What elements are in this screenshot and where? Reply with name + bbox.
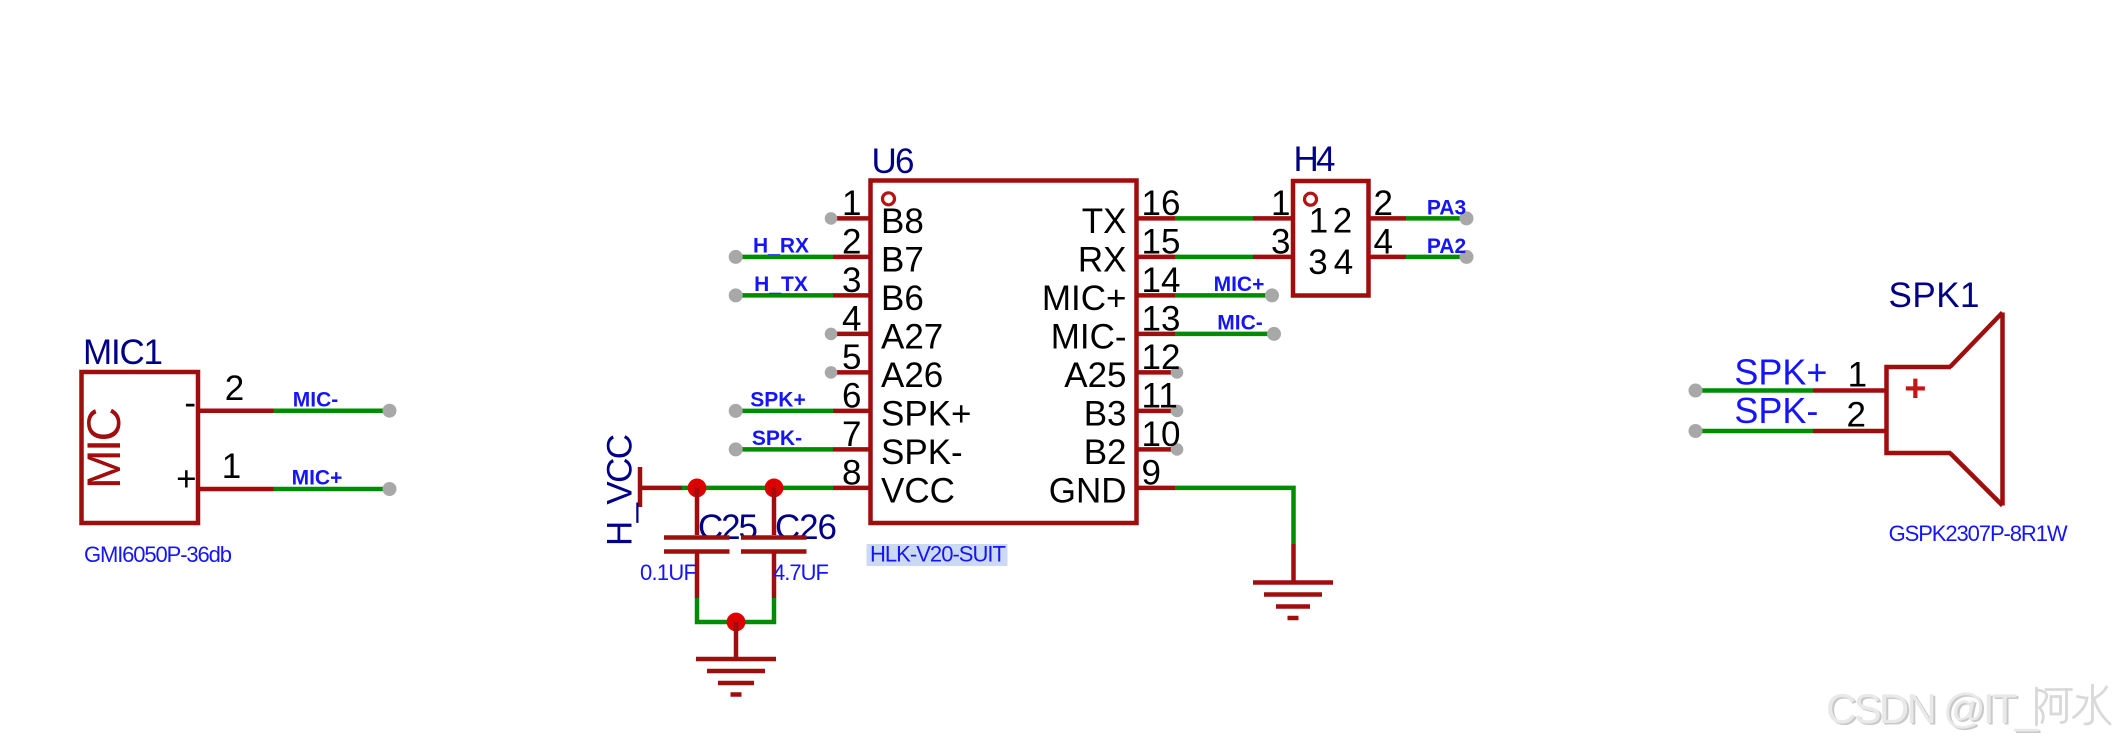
svg-text:3: 3 [1271,222,1290,261]
U6 pin 15 number [1142,222,1181,261]
U6 pin 8 name VCC [881,472,955,511]
ground stub right [1291,544,1296,581]
svg-text:GMI6050P-36db: GMI6050P-36db [84,542,232,567]
wire H_TX net [736,293,833,298]
net label MIC+ (right) [1214,273,1265,296]
svg-text:H4: H4 [1294,140,1336,179]
svg-text:A27: A27 [881,318,943,357]
svg-text:12: 12 [1142,338,1181,377]
SPK1 pin 2 number [1846,395,1865,434]
svg-text:B8: B8 [881,202,924,241]
H4 inner pin number 4 [1334,243,1353,282]
svg-text:C26: C26 [775,508,837,547]
U6 pin 11 name B3 [1084,395,1127,434]
wire MIC+ net [274,487,390,492]
svg-text:MIC+: MIC+ [292,467,343,490]
svg-text:GSPK2307P-8R1W: GSPK2307P-8R1W [1889,521,2068,546]
svg-text:SPK+: SPK+ [881,395,971,434]
svg-text:11: 11 [1142,376,1178,415]
U6 pin 3 stub [833,293,869,298]
power port H_VCC text [601,434,640,546]
svg-text:SPK-: SPK- [1734,390,1818,431]
svg-text:PA3: PA3 [1427,196,1466,219]
wire PA3 net [1406,216,1466,221]
U6 pin 1 name B8 [881,202,924,241]
node MIC+ open end (right) [1265,288,1279,302]
wire GND net from U6 pin 9 [1175,488,1294,544]
microphone MIC1 body [78,372,198,523]
MIC1 pin 1 number [222,447,241,486]
U6 pin 5 stub [832,370,869,375]
U6 pin 2 stub [833,255,869,260]
capacitor C25 value 0.1UF [640,560,697,585]
net label PA2 [1427,235,1466,258]
svg-text:6: 6 [842,376,861,415]
U6 pin 8 number [842,453,861,492]
svg-text:5: 5 [842,338,861,377]
U6 pin 10 stub [1138,447,1175,452]
node SPK+ open end [729,404,743,418]
svg-text:2: 2 [1846,395,1865,434]
U6 pin 2 number [842,222,861,261]
svg-text:U6: U6 [872,142,915,181]
svg-text:1: 1 [222,447,241,486]
H4 pin 4 number [1374,222,1393,261]
svg-text:0.1UF: 0.1UF [640,560,697,585]
wire SPK- net (left) [736,447,833,452]
junction at C26 top [765,479,784,498]
node MIC- open end (right) [1267,327,1281,341]
U6 pin 15 stub [1138,255,1175,260]
U6 pin 12 stub [1138,370,1175,375]
U6 pin 10 name B2 [1084,433,1127,472]
svg-text:H_VCC: H_VCC [601,434,640,546]
svg-text:9: 9 [1142,453,1161,492]
wire SPK- net (speaker) [1697,429,1813,434]
U6 pin 6 name SPK+ [881,395,971,434]
node SPK- open end [729,442,743,456]
svg-text:2: 2 [225,369,244,408]
U6 pin 11 stub [1138,409,1175,414]
U6 pin 4 number [842,299,861,338]
svg-text:B7: B7 [881,241,924,280]
svg-text:2: 2 [1333,201,1352,240]
wire MIC- net [274,408,390,413]
U6 pin 7 number [842,415,861,454]
wire SPK+ net (left) [736,409,833,414]
svg-text:4.7UF: 4.7UF [773,560,829,585]
svg-text:1: 1 [1309,201,1328,240]
U6 pin 10 open end [1171,443,1184,456]
svg-text:10: 10 [1142,415,1181,454]
junction at C25 top [688,479,707,498]
H4 inner pin number 3 [1308,243,1327,282]
SPK1 pin 2 stub [1813,429,1887,434]
svg-text:+: + [176,459,196,498]
svg-text:2: 2 [842,222,861,261]
svg-text:3: 3 [1308,243,1327,282]
wire TX to H4 pin 1 [1175,216,1253,221]
node SPK- open end (speaker) [1689,424,1703,438]
wire PA2 net [1406,255,1466,260]
svg-text:HLK-V20-SUIT: HLK-V20-SUIT [870,542,1006,567]
svg-text:3: 3 [842,261,861,300]
wire capacitor bottoms to ground [697,598,774,622]
U6 pin 2 name B7 [881,241,924,280]
U6 pin 1 open end [825,212,838,225]
node PA2 open end [1460,250,1474,264]
svg-text:MIC-: MIC- [1217,312,1263,335]
svg-text:GND: GND [1049,472,1127,511]
IC U6 body [871,181,1137,524]
net label SPK+ [750,389,805,412]
U6 pin 9 stub [1138,486,1175,491]
U6 pin 5 number [842,338,861,377]
U6 pin 9 name GND [1049,472,1127,511]
U6 pin 16 number [1142,184,1181,223]
U6 pin 6 stub [833,409,869,414]
U6 pin 3 name B6 [881,279,924,318]
H4 pin 2 stub [1371,216,1407,221]
node H_RX open end [729,250,743,264]
MIC1 pin 1 stub [197,487,274,492]
U6 pin 12 name A25 [1064,356,1126,395]
U6 pin 4 open end [825,328,838,341]
U6 pin 11 open end [1171,405,1184,418]
net label MIC+ [292,467,343,490]
MIC1 pin 2 number [225,369,244,408]
svg-text:13: 13 [1142,299,1181,338]
ground symbol under capacitors [696,659,776,695]
speaker SPK1 polarity plus [1904,368,1926,410]
SPK1 pin 1 stub [1813,388,1887,393]
svg-text:SPK+: SPK+ [750,389,805,412]
MIC1 pin 1 name "+" [176,459,196,498]
connector H4 body [1293,181,1369,296]
svg-text:14: 14 [1142,261,1181,300]
speaker SPK1 designator [1889,276,1980,315]
svg-text:-: - [184,384,196,423]
U6 pin 16 name TX [1082,202,1127,241]
H4 pin 2 number [1374,184,1393,223]
U6 pin 14 stub [1138,293,1175,298]
IC U6 designator [872,142,915,181]
U6 pin 11 number [1142,376,1178,415]
svg-text:A26: A26 [881,356,943,395]
U6 value label HLK-V20-SUIT [867,542,1008,567]
svg-text:7: 7 [842,415,861,454]
svg-text:MIC+: MIC+ [1214,273,1265,296]
connector H4 designator [1294,140,1336,179]
svg-text:B2: B2 [1084,433,1127,472]
svg-text:+: + [1904,368,1926,410]
svg-text:MIC: MIC [78,407,131,489]
svg-text:VCC: VCC [881,472,955,511]
MIC1 pin 2 stub [197,408,274,413]
svg-text:SPK-: SPK- [881,433,963,472]
U6 pin 16 stub [1138,216,1175,221]
U6 pin 12 open end [1171,366,1184,379]
H4 pin 4 stub [1371,255,1407,260]
U6 pin 8 stub [833,486,869,491]
svg-text:H_RX: H_RX [753,235,809,258]
watermark glyph A (阿) [2037,688,2072,725]
H4 inner pin number 1 [1309,201,1328,240]
power port H_VCC bar symbol [640,467,682,507]
net label MIC- (right) [1217,312,1263,335]
svg-text:1: 1 [1271,184,1290,223]
U6 pin 6 number [842,376,861,415]
U6 pin 14 number [1142,261,1181,300]
U6 pin 3 number [842,261,861,300]
svg-text:SPK1: SPK1 [1889,276,1980,315]
svg-text:4: 4 [842,299,861,338]
wire H_VCC net to U6 pin 8 [682,486,833,491]
speaker SPK1 body [1887,313,2003,506]
net label MIC- [293,388,339,411]
watermark CSDN @IT_ text [1826,685,2041,734]
svg-text:SPK-: SPK- [752,427,802,450]
microphone MIC1 designator [83,333,163,372]
node PA3 open end [1460,211,1474,225]
U6 pin 7 name SPK- [881,433,963,472]
capacitor C25 designator [698,508,758,547]
wire MIC+ net (right) [1175,293,1272,298]
U6 pin 10 number [1142,415,1181,454]
node MIC+ open end [383,482,397,496]
U6 pin 7 stub [833,447,869,452]
H4 pin 1 number [1271,184,1290,223]
wire H_RX net [736,255,833,260]
net label SPK+ (speaker) [1734,352,1827,393]
node SPK+ open end (speaker) [1689,384,1703,398]
svg-text:MIC-: MIC- [293,388,339,411]
U6 pin 1 stub [832,216,869,221]
svg-text:4: 4 [1374,222,1393,261]
svg-text:MIC+: MIC+ [1042,279,1127,318]
svg-text:B6: B6 [881,279,924,318]
svg-text:4: 4 [1334,243,1353,282]
node H_TX open end [729,288,743,302]
MIC1 pin 2 name "-" [184,384,196,423]
U6 pin 4 stub [832,332,869,337]
U6 pin 1 indicator circle [883,193,895,205]
U6 pin 4 name A27 [881,318,943,357]
svg-text:MIC-: MIC- [1051,318,1127,357]
svg-text:C25: C25 [698,508,758,547]
H4 pin 3 stub [1253,255,1291,260]
U6 pin 5 name A26 [881,356,943,395]
capacitor C25 [664,488,730,598]
H4 inner pin number 2 [1333,201,1352,240]
U6 pin 13 number [1142,299,1181,338]
H4 pin 1 indicator circle [1305,193,1317,205]
svg-text:RX: RX [1078,241,1127,280]
watermark glyph B (水) [2074,685,2111,724]
svg-text:H_TX: H_TX [754,273,808,296]
net label H_TX [754,273,808,296]
junction at ground node [727,613,746,632]
svg-text:MIC1: MIC1 [83,333,163,372]
node MIC- open end [383,404,397,418]
MIC1 value label GMI6050P-36db [84,542,232,567]
svg-text:8: 8 [842,453,861,492]
wire RX to H4 pin 3 [1175,255,1253,260]
H4 pin 3 number [1271,222,1290,261]
net label PA3 [1427,196,1466,219]
ground symbol right [1253,583,1333,619]
U6 pin 13 name MIC- [1051,318,1127,357]
svg-text:SPK+: SPK+ [1734,352,1827,393]
svg-text:15: 15 [1142,222,1181,261]
U6 pin 5 open end [825,366,838,379]
svg-text:PA2: PA2 [1427,235,1466,258]
U6 pin 12 number [1142,338,1181,377]
U6 pin 1 number [842,184,861,223]
ground stub under capacitors [734,622,739,658]
wire SPK+ net (speaker) [1697,388,1813,393]
SPK1 pin 1 number [1848,356,1867,395]
net label H_RX [753,235,809,258]
net label SPK- (speaker) [1734,390,1818,431]
net label SPK- [752,427,802,450]
U6 pin 14 name MIC+ [1042,279,1127,318]
svg-text:1: 1 [842,184,861,223]
svg-text:A25: A25 [1064,356,1126,395]
H4 pin 1 stub [1253,216,1291,221]
U6 pin 13 stub [1138,332,1175,337]
svg-text:CSDN @IT_: CSDN @IT_ [1826,685,2039,732]
capacitor C26 designator [775,508,837,547]
U6 pin 15 name RX [1078,241,1127,280]
wire MIC- net (right) [1175,332,1274,337]
U6 pin 9 number [1142,453,1161,492]
SPK1 value label GSPK2307P-8R1W [1889,521,2068,546]
svg-text:2: 2 [1374,184,1393,223]
svg-text:B3: B3 [1084,395,1127,434]
svg-text:TX: TX [1082,202,1127,241]
svg-text:16: 16 [1142,184,1181,223]
capacitor C26 [741,488,807,598]
capacitor C26 value 4.7UF [773,560,829,585]
